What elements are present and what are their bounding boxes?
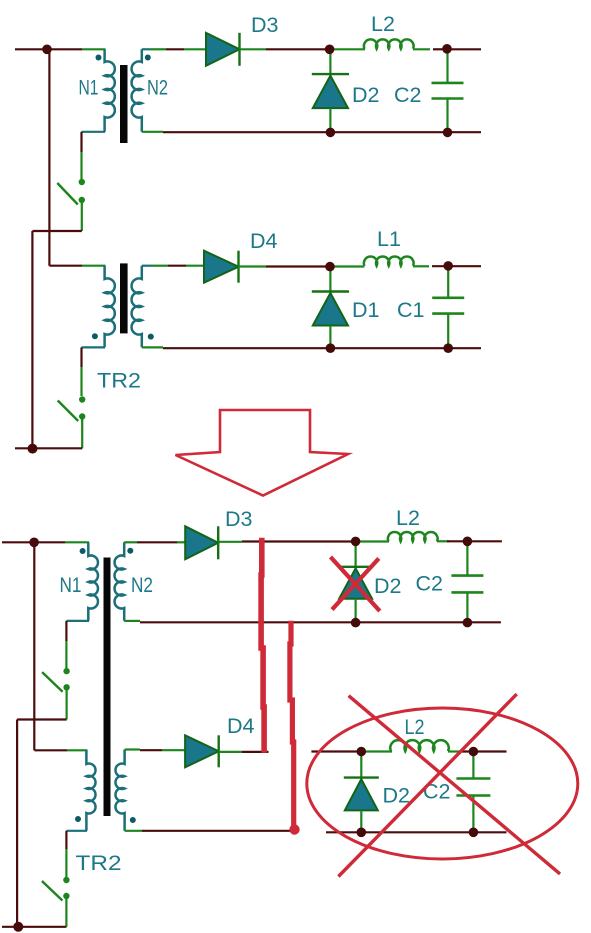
svg-text:L2: L2 bbox=[371, 12, 395, 36]
svg-text:N1: N1 bbox=[79, 76, 99, 100]
svg-text:D1: D1 bbox=[352, 298, 379, 322]
svg-text:C2: C2 bbox=[423, 780, 450, 804]
svg-text:L2: L2 bbox=[396, 506, 420, 530]
svg-text:C2: C2 bbox=[394, 83, 421, 107]
svg-text:C2: C2 bbox=[416, 572, 443, 596]
svg-text:L1: L1 bbox=[377, 227, 401, 251]
svg-text:D3: D3 bbox=[251, 13, 279, 37]
svg-text:N2: N2 bbox=[147, 76, 168, 100]
svg-text:D4: D4 bbox=[250, 229, 278, 253]
svg-text:D2: D2 bbox=[383, 784, 410, 808]
svg-text:N2: N2 bbox=[131, 573, 153, 597]
svg-text:L2: L2 bbox=[405, 715, 425, 739]
svg-text:N1: N1 bbox=[60, 573, 82, 597]
svg-text:D3: D3 bbox=[225, 507, 253, 531]
svg-text:TR2: TR2 bbox=[76, 851, 122, 875]
svg-text:C1: C1 bbox=[397, 298, 424, 322]
svg-text:D2: D2 bbox=[374, 574, 401, 598]
svg-text:D2: D2 bbox=[352, 83, 379, 107]
svg-text:D4: D4 bbox=[227, 714, 255, 738]
svg-text:TR2: TR2 bbox=[97, 369, 141, 393]
